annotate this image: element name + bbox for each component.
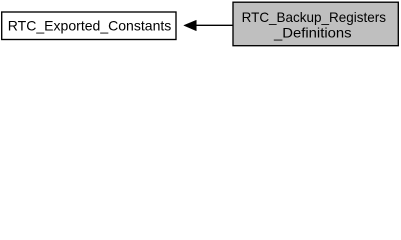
- svg-text:RTC_Exported_Constants: RTC_Exported_Constants: [8, 18, 172, 33]
- edge wire: RTC_Backup_Registers_Definitions -> RTC_Exported_Constants: [196, 24, 233, 26]
- node RTC_Exported_Constants (box): [2, 12, 176, 40]
- node RTC_Backup_Registers_Definitions (box, current, grey fill): [233, 2, 398, 46]
- svg-text:RTC_Backup_Registers: RTC_Backup_Registers: [242, 10, 387, 25]
- node RTC_Exported_Constants (label): [8, 18, 172, 33]
- node RTC_Backup_Registers_Definitions (label line 2): [273, 25, 352, 40]
- svg-text:_Definitions: _Definitions: [273, 25, 352, 40]
- edge arrowhead pointing at RTC_Exported_Constants: [184, 20, 197, 31]
- node RTC_Backup_Registers_Definitions (label line 1): [242, 10, 387, 25]
